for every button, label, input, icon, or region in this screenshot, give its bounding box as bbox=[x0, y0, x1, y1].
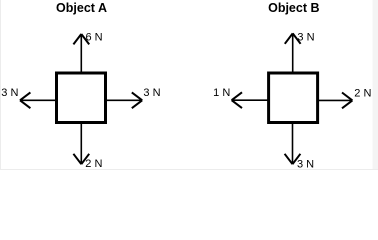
svg-text:Object B: Object B bbox=[268, 1, 319, 15]
svg-text:3 N: 3 N bbox=[297, 159, 314, 171]
svg-text:1 N: 1 N bbox=[213, 87, 230, 99]
svg-text:6 N: 6 N bbox=[86, 32, 103, 44]
svg-text:3 N: 3 N bbox=[143, 87, 160, 99]
svg-text:2 N: 2 N bbox=[85, 158, 102, 170]
svg-text:3 N: 3 N bbox=[297, 31, 314, 43]
svg-text:3 N: 3 N bbox=[1, 87, 18, 99]
svg-text:2 N: 2 N bbox=[354, 87, 371, 99]
svg-text:Object A: Object A bbox=[56, 1, 107, 15]
